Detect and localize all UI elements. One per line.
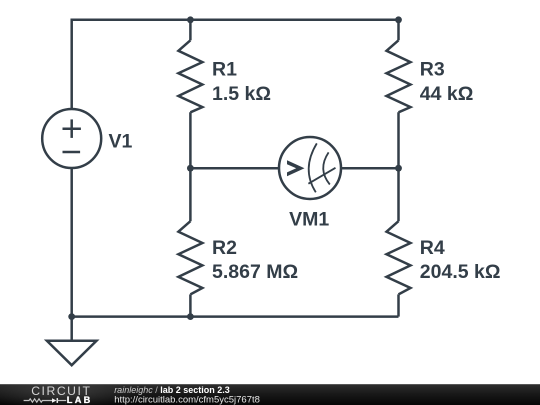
svg-text:VM1: VM1 [289, 208, 329, 230]
wire R1 bottom lead to R2 top lead [189, 112, 192, 221]
wire top rail to R3 top lead [397, 20, 400, 41]
logo diode symbol [52, 398, 56, 403]
wire middle rail left (node B to VM1 left terminal) [190, 167, 279, 170]
wire V1 positive terminal to top rail [72, 20, 399, 109]
voltmeter VM1 chevron (rotated V) [287, 160, 305, 176]
wire R3 bottom lead to R4 top lead [397, 112, 400, 221]
wire R2 bottom lead to bottom rail [189, 294, 192, 316]
voltmeter VM1 needle [308, 168, 335, 184]
wire middle rail right (VM1 right terminal to node C) [341, 167, 399, 170]
svg-text:44 kΩ: 44 kΩ [420, 83, 474, 105]
voltmeter VM1 scale arc short [323, 152, 330, 184]
footer bar [0, 384, 540, 405]
svg-text:1.5 kΩ: 1.5 kΩ [212, 83, 271, 105]
voltmeter VM1 body [279, 137, 341, 199]
resistor R1 [178, 40, 202, 112]
node junction bottom middle (R2 / bottom rail) [187, 313, 194, 320]
svg-text:R4: R4 [420, 237, 445, 259]
wire V1 negative terminal down to ground [70, 168, 73, 341]
resistor R3 [387, 40, 411, 112]
svg-text:5.867 MΩ: 5.867 MΩ [212, 261, 298, 283]
node junction top right (R3 / top rail) [395, 16, 402, 23]
node junction top left (R1 / top rail) [187, 16, 194, 23]
voltage source V1 body [42, 109, 101, 168]
node junction middle left (R1-R2 / VM1) [187, 165, 194, 172]
svg-text:LAB: LAB [67, 395, 93, 405]
svg-text:rainleighc / lab 2 section 2.3: rainleighc / lab 2 section 2.3 [114, 385, 230, 395]
svg-text:http://circuitlab.com/cfm5yc5j: http://circuitlab.com/cfm5yc5j767t8 [114, 395, 260, 405]
wire top rail to R1 top lead [189, 20, 192, 41]
logo resistor squiggle [24, 399, 52, 402]
voltmeter VM1 scale arc long [309, 143, 317, 192]
resistor R2 [178, 221, 202, 294]
resistor R4 [387, 221, 411, 294]
svg-text:V1: V1 [109, 130, 133, 152]
wire bottom rail [72, 315, 399, 318]
V1 minus sign [63, 151, 81, 154]
svg-text:204.5 kΩ: 204.5 kΩ [420, 261, 501, 283]
wire R4 bottom lead to bottom rail [397, 294, 400, 316]
node junction bottom left (V1 / ground) [68, 313, 75, 320]
node junction middle right (R3-R4 / VM1) [395, 165, 402, 172]
svg-text:R2: R2 [212, 237, 237, 259]
svg-text:R1: R1 [212, 59, 237, 81]
V1 plus sign [63, 127, 81, 130]
svg-text:R3: R3 [420, 59, 445, 81]
ground [47, 341, 97, 365]
